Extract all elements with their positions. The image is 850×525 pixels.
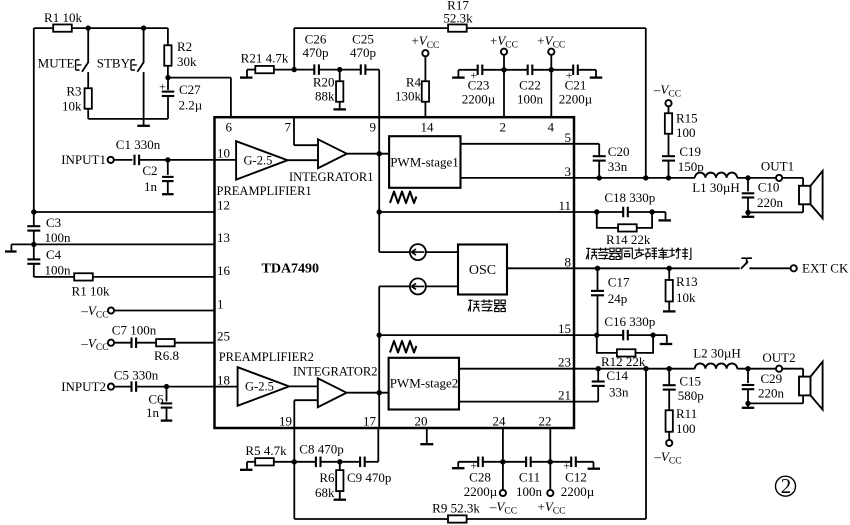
svg-text:MUTE: MUTE (38, 56, 75, 71)
svg-text:5: 5 (565, 130, 572, 145)
node junction MUTE top (86, 25, 91, 30)
ground R6 (339, 491, 341, 499)
capacitor C18 (622, 207, 624, 218)
svg-text:G-2.5: G-2.5 (245, 380, 274, 394)
svg-text:R2: R2 (177, 39, 192, 54)
svg-text:2: 2 (781, 474, 792, 498)
svg-text:R6: R6 (319, 470, 335, 485)
wire node to current source 1 (378, 212, 380, 252)
wire pin 21 external (574, 401, 598, 403)
node C16 left junction (594, 332, 599, 337)
node pin13 junction (31, 242, 36, 247)
svg-text:R9 52.3k: R9 52.3k (432, 501, 480, 516)
node C6 junction (164, 384, 169, 389)
svg-text:24: 24 (493, 414, 507, 429)
wire pin 23 output line (574, 368, 695, 370)
ground left of C28 (452, 467, 465, 469)
node C15 junction (667, 366, 672, 371)
wire node down to integrator2 out (378, 335, 380, 428)
node C17 junction (595, 266, 600, 271)
svg-text:2200µ: 2200µ (462, 92, 496, 107)
wire pin 11 internal (379, 211, 574, 213)
speaker LS2 (799, 377, 811, 396)
svg-text:+: + (159, 80, 166, 94)
svg-text:23: 23 (558, 355, 571, 370)
svg-text:10: 10 (217, 146, 230, 161)
svg-text:PREAMPLIFIER1: PREAMPLIFIER1 (217, 184, 312, 198)
wire C5 to pin 18 (136, 386, 238, 388)
resistor R21 (247, 69, 255, 71)
svg-text:TDA7490: TDA7490 (262, 262, 320, 277)
resistor R6 (339, 462, 341, 470)
capacitor C20 (593, 155, 606, 157)
capacitor C7 (114, 342, 131, 344)
resistor R17 (448, 24, 467, 31)
svg-text:1: 1 (217, 297, 224, 312)
resistor R5 (247, 461, 255, 463)
svg-text:L1 30µH: L1 30µH (692, 180, 740, 195)
wire pin 24 stub (502, 428, 504, 462)
ground C16 (653, 334, 667, 336)
node +Vcc pin4 junction (549, 67, 554, 72)
wire C25 to pin 9 (365, 69, 379, 71)
svg-text:17: 17 (363, 414, 377, 429)
wire pin 3 output line (574, 177, 695, 179)
wire pin 5 internal (461, 143, 575, 145)
capacitor C2 (167, 160, 169, 175)
svg-text:11: 11 (558, 198, 571, 213)
wire to C28 (458, 461, 478, 463)
wire pin 11 external (574, 211, 623, 213)
svg-text:R21 4.7k: R21 4.7k (241, 51, 289, 66)
oscillator label 振荡器 (468, 300, 506, 312)
speaker LS1 (799, 186, 811, 205)
svg-text:25: 25 (217, 329, 230, 344)
capacitor C1 (114, 159, 133, 161)
svg-text:C4: C4 (46, 247, 62, 262)
wire C9 to pin 17 (365, 461, 379, 463)
capacitor C17 (597, 268, 599, 291)
triangle wave symbol 2 (390, 341, 416, 353)
wire pin 1 (114, 310, 214, 312)
node C18 left junction (594, 209, 599, 214)
node +Vcc pin2 junction (501, 67, 506, 72)
node C14 junction (596, 366, 601, 371)
capacitor C28 (477, 457, 479, 468)
svg-text:C28: C28 (469, 470, 491, 485)
op-amp integrator2 (318, 378, 347, 407)
node pin12 junction (31, 209, 36, 214)
oscillator sync label 振荡器同步频率控制 (586, 248, 691, 260)
resistor R20 (339, 70, 341, 82)
svg-text:2200µ: 2200µ (561, 484, 595, 499)
svg-text:R5 4.7k: R5 4.7k (245, 443, 287, 458)
resistor R4 (424, 56, 426, 81)
svg-text:C1 330n: C1 330n (116, 137, 161, 152)
svg-text:1n: 1n (144, 179, 158, 194)
svg-text:C22: C22 (519, 78, 541, 93)
capacitor C15 (668, 369, 670, 386)
wire pin4 vertical (550, 55, 552, 70)
ground C10 (747, 212, 749, 215)
svg-text:L2 30µH: L2 30µH (693, 346, 741, 361)
capacitor C21 (572, 65, 574, 76)
svg-text:C18 330p: C18 330p (604, 190, 655, 205)
node R9 feedback junction (643, 366, 648, 371)
wire C28 to C11 (483, 461, 526, 463)
ground C29 (747, 403, 749, 406)
wire pin 22 stub (549, 428, 551, 462)
op-amp preamplifier2 G-2.5 (238, 367, 290, 406)
svg-text:15: 15 (558, 321, 571, 336)
resistor R15 (668, 106, 670, 113)
terminal +Vcc R4 (422, 50, 428, 56)
node R13 junction (667, 266, 672, 271)
svg-text:STBY: STBY (97, 56, 131, 71)
op-amp preamplifier1 G-2.5 (236, 141, 288, 179)
ground R21 (246, 70, 248, 77)
svg-text:33n: 33n (608, 159, 628, 174)
svg-text:C3: C3 (46, 215, 61, 230)
capacitor C23 (477, 65, 479, 76)
wire R17 to pin3 node (467, 27, 646, 29)
svg-text:C10: C10 (758, 180, 780, 195)
node pin15 junction (377, 332, 382, 337)
svg-text:100n: 100n (45, 230, 72, 245)
wire integrator1 out (347, 153, 389, 155)
IC U1 TDA7490 body (215, 117, 575, 428)
node junction STBY top (141, 25, 146, 30)
svg-text:C9 470p: C9 470p (347, 470, 391, 485)
node -Vcc pin24 junction (500, 459, 505, 464)
wire bottom of mute block (88, 118, 168, 120)
terminal +Vcc pin22 (549, 462, 551, 490)
ground R5 (246, 462, 248, 469)
wire L1 to OUT1 (737, 177, 776, 179)
svg-text:100n: 100n (516, 484, 543, 499)
capacitor C26 (313, 64, 315, 75)
wire pin 17 stub (377, 428, 379, 462)
wire pin 15 external (574, 334, 623, 336)
current source circle 1 (410, 244, 426, 260)
svg-text:580p: 580p (678, 388, 704, 403)
svg-text:R14 22k: R14 22k (606, 232, 651, 247)
wire R9 feedback bottom (294, 518, 448, 520)
resistor R9 (448, 515, 467, 522)
resistor R1 (53, 24, 72, 31)
wire pin 13 (11, 243, 214, 245)
wire switch to EXT CK (749, 267, 790, 269)
resistor R3 (85, 88, 92, 109)
svg-text:R12 22k: R12 22k (601, 354, 646, 369)
wire C18 right (628, 211, 652, 213)
svg-text:4: 4 (548, 120, 555, 135)
capacitor C19 (662, 155, 675, 157)
wire speaker1 bottom (748, 211, 803, 213)
svg-text:19: 19 (279, 414, 292, 429)
node C19 junction (666, 175, 671, 180)
node pin11 junction (377, 209, 382, 214)
svg-text:14: 14 (421, 120, 435, 135)
svg-text:30k: 30k (177, 54, 197, 69)
svg-text:R15: R15 (676, 111, 698, 126)
wire C16 right (628, 334, 653, 336)
svg-text:7: 7 (285, 120, 292, 135)
wire OUT2 to speaker (782, 368, 803, 370)
wire C1 to pin 10 (139, 159, 236, 161)
node R17 feedback junction (643, 175, 648, 180)
wire top-left rail (34, 27, 54, 29)
current source circle 2 (410, 278, 426, 294)
svg-text:OUT1: OUT1 (761, 159, 794, 174)
terminal +Vcc pin2 (501, 49, 507, 55)
svg-text:PREAMPLIFIER2: PREAMPLIFIER2 (219, 350, 314, 364)
ground C18 (652, 211, 665, 213)
capacitor C8 (315, 457, 317, 468)
svg-text:22: 22 (539, 414, 552, 429)
svg-text:R11: R11 (676, 406, 697, 421)
svg-text:INTEGRATOR1: INTEGRATOR1 (289, 170, 374, 184)
wire pin 15 internal (379, 334, 574, 336)
node C20 junction (597, 175, 602, 180)
wire integrator2 out (347, 392, 389, 394)
wire preamp2 out (289, 385, 318, 387)
svg-text:88k: 88k (315, 89, 335, 104)
svg-text:9: 9 (370, 120, 377, 135)
wire pin 8 external (574, 267, 740, 269)
svg-text:2200µ: 2200µ (464, 484, 498, 499)
wire to C23 (458, 69, 477, 71)
resistor R10 (labelled R1 10k) (74, 273, 93, 280)
svg-text:OUT2: OUT2 (762, 350, 795, 365)
node C2 junction (165, 157, 170, 162)
capacitor C6 (166, 387, 168, 402)
wire preamp1 out (288, 159, 318, 161)
capacitor C4 (33, 244, 35, 259)
terminal +Vcc pin4 (548, 49, 554, 55)
node integrator2 output junction (377, 390, 382, 395)
svg-text:1n: 1n (146, 405, 160, 420)
svg-text:2.2µ: 2.2µ (179, 98, 203, 113)
svg-text:100n: 100n (517, 92, 544, 107)
ground right of C12 (576, 461, 594, 463)
terminal EXT CK (791, 265, 797, 271)
wire C27 node to pin 6 (168, 77, 231, 79)
node C18 right junction (649, 209, 654, 214)
svg-text:130k: 130k (395, 89, 422, 104)
svg-text:PWM-stage2: PWM-stage2 (390, 376, 459, 391)
svg-text:220n: 220n (758, 386, 785, 401)
svg-text:16: 16 (217, 263, 231, 278)
svg-text:OSC: OSC (469, 263, 496, 278)
resistor R12 loop (597, 335, 618, 353)
svg-text:C20: C20 (608, 144, 630, 159)
svg-text:100: 100 (676, 421, 696, 436)
inductor L2 (695, 363, 737, 368)
node integrator1 output junction (377, 151, 382, 156)
svg-text:12: 12 (217, 198, 230, 213)
wire L2 to OUT2 (737, 368, 776, 370)
svg-text:C16 330p: C16 330p (604, 314, 655, 329)
wire pin 19 internal (293, 400, 295, 428)
wire R3 bottom (87, 109, 89, 119)
wire R6.8 to pin 25 (175, 342, 214, 344)
switch STBY (143, 28, 145, 62)
node C10 junction top (745, 175, 750, 180)
svg-text:21: 21 (558, 388, 571, 403)
svg-text:220n: 220n (757, 195, 784, 210)
node +Vcc pin22 junction (548, 459, 553, 464)
wire R5 to node (274, 461, 316, 463)
resistor R2 (167, 28, 169, 45)
wire pin 16 (34, 276, 215, 278)
capacitor C3 (33, 212, 35, 226)
terminal -Vcc R11 (668, 432, 670, 440)
wire C22 to C21 (532, 69, 573, 71)
capacitor C14 (597, 369, 599, 382)
svg-text:20: 20 (415, 414, 428, 429)
svg-text:INPUT2: INPUT2 (61, 379, 106, 394)
capacitor C16 (622, 330, 624, 341)
svg-text:G-2.5: G-2.5 (244, 154, 273, 168)
svg-text:100: 100 (676, 125, 696, 140)
svg-text:R1 10k: R1 10k (44, 10, 82, 25)
wire node to current source 2 (379, 285, 410, 287)
wire pin 21 internal (459, 401, 574, 403)
svg-text:C29: C29 (761, 371, 783, 386)
capacitor C27 (167, 78, 169, 90)
terminal -Vcc pin24 (502, 462, 504, 490)
wire OUT1 to speaker (782, 177, 803, 179)
wire node down to pin11 line (378, 154, 380, 212)
oscillator block OSC (458, 245, 507, 295)
svg-text:C27: C27 (179, 82, 201, 97)
wire R4 to pin 14 (424, 102, 426, 117)
svg-text:2: 2 (500, 120, 507, 135)
svg-text:R6.8: R6.8 (154, 348, 179, 363)
ground R20 (333, 108, 346, 110)
ground right of C21 (578, 69, 596, 71)
ground STBY (137, 125, 150, 127)
node C10 junction bottom (745, 210, 750, 215)
svg-text:2200µ: 2200µ (559, 92, 593, 107)
pwm block PWM-stage2 (389, 358, 459, 410)
wire pin 3 internal (461, 177, 575, 179)
svg-text:C19: C19 (679, 144, 701, 159)
wire pin 12 (34, 211, 215, 213)
wire R1 to R2 (72, 27, 168, 29)
ground left of C23 (452, 76, 465, 78)
node pin19 feedback junction (292, 459, 297, 464)
svg-text:R20: R20 (313, 75, 335, 90)
wire R9 to pin 23 node (467, 518, 646, 520)
wire pin 19 stub (293, 428, 295, 462)
node R20 junction (337, 67, 342, 72)
capacitor C22 (527, 65, 529, 76)
svg-text:EXT CK: EXT CK (802, 261, 849, 276)
svg-text:24p: 24p (608, 291, 628, 306)
capacitor C11 (525, 457, 527, 468)
node C16 right junction (650, 332, 655, 337)
ground pin13 input (5, 250, 16, 252)
svg-text:C7 100n: C7 100n (112, 323, 157, 338)
svg-text:C5 330n: C5 330n (114, 368, 159, 383)
wire top rail to R17 (294, 27, 448, 29)
wire node up to R17 rail (293, 28, 295, 70)
svg-text:C17: C17 (608, 275, 630, 290)
node pin7 feedback junction (292, 67, 297, 72)
svg-text:C8 470p: C8 470p (299, 442, 343, 457)
svg-text:C2: C2 (142, 163, 157, 178)
svg-text:13: 13 (217, 230, 230, 245)
svg-text:10k: 10k (676, 290, 696, 305)
resistor R14 loop (597, 212, 618, 228)
svg-text:INPUT1: INPUT1 (61, 152, 106, 167)
svg-text:C12: C12 (565, 470, 587, 485)
resistor R6.8 (136, 342, 156, 344)
triangle wave symbol 1 (390, 192, 416, 204)
svg-text:52.3k: 52.3k (443, 11, 473, 26)
capacitor C9 (359, 457, 361, 468)
capacitor C29 (747, 369, 749, 383)
svg-text:R4: R4 (406, 75, 422, 90)
figure number circled 2 (776, 476, 796, 496)
wire C23 to C22 (482, 69, 527, 71)
svg-text:C21: C21 (565, 78, 587, 93)
capacitor C12 (570, 457, 572, 468)
node R6 junction (337, 459, 342, 464)
switch MUTE (87, 28, 89, 62)
wire speaker2 bottom (748, 402, 803, 404)
svg-text:C23: C23 (468, 78, 490, 93)
svg-text:470p: 470p (350, 45, 376, 60)
wire current source 1 to OSC (426, 251, 458, 253)
ground R13 (668, 302, 670, 311)
svg-text:6: 6 (226, 120, 233, 135)
inductor L1 (695, 173, 737, 178)
capacitor C5 (114, 386, 131, 388)
wire C11 to C12 (531, 461, 572, 463)
resistor R13 (668, 268, 670, 280)
svg-text:470p: 470p (303, 45, 329, 60)
switch EXT CK (741, 261, 748, 269)
svg-text:R13: R13 (676, 274, 698, 289)
wire pin 7 internal (293, 117, 295, 145)
svg-text:INTEGRATOR2: INTEGRATOR2 (293, 365, 378, 379)
resistor R11 (666, 410, 673, 432)
capacitor C25 (360, 64, 362, 75)
svg-text:8: 8 (565, 254, 572, 269)
svg-text:18: 18 (217, 373, 230, 388)
svg-text:C15: C15 (679, 374, 701, 389)
svg-text:R1 10k: R1 10k (72, 284, 110, 299)
wire current source 2 to OSC (426, 285, 458, 287)
pwm block PWM-stage1 (389, 136, 460, 188)
svg-text:100n: 100n (45, 263, 72, 278)
wire R9 feedback left (293, 462, 295, 519)
svg-text:10k: 10k (62, 99, 82, 114)
svg-text:3: 3 (565, 164, 572, 179)
svg-text:R3: R3 (66, 84, 81, 99)
op-amp integrator1 (318, 139, 347, 168)
node C29 junction top (745, 366, 750, 371)
wire C8 to C9 (321, 461, 361, 463)
wire pin 5 to C20 (574, 143, 599, 145)
wire C26 to C25 (319, 69, 361, 71)
wire R21 to node (274, 69, 315, 71)
node R2/C27 junction (165, 75, 170, 80)
svg-text:PWM-stage1: PWM-stage1 (390, 155, 459, 170)
